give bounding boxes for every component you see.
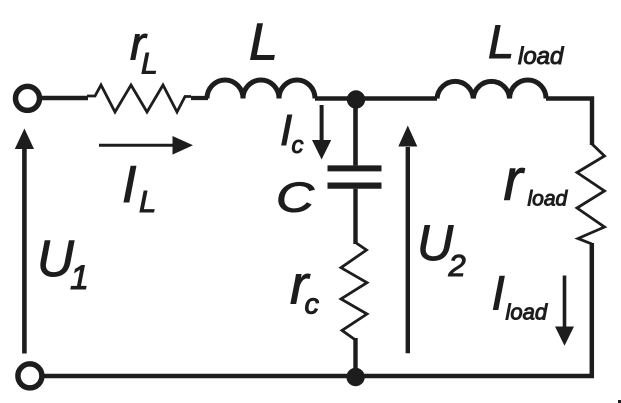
svg-text:2: 2 (448, 248, 466, 283)
svg-text:load: load (506, 300, 548, 325)
svg-text:load: load (528, 188, 569, 211)
svg-text:I: I (122, 156, 136, 214)
wire top-left horizontal (42, 96, 88, 101)
terminal bottom-left (18, 364, 42, 388)
svg-text:load: load (518, 43, 564, 70)
node top junction (347, 90, 365, 108)
wire rL to L (191, 96, 208, 100)
caption period bottom-right (618, 400, 621, 403)
node bottom junction (346, 368, 364, 386)
arrow U2 (406, 147, 410, 353)
terminal top-left (16, 86, 40, 110)
resistor rload (577, 144, 605, 244)
svg-text:L: L (249, 13, 278, 71)
inductor L (207, 80, 315, 98)
arrow U1 (22, 147, 27, 354)
wire rc to bottom node (353, 338, 357, 376)
inductor Lload (437, 80, 546, 98)
svg-text:c: c (305, 288, 320, 320)
capacitor C (328, 165, 382, 171)
svg-text:L: L (488, 15, 514, 68)
svg-text:L: L (141, 48, 158, 81)
resistor rL (87, 85, 191, 112)
svg-text:1: 1 (70, 259, 89, 297)
wire Lload to top-right corner and down (546, 99, 592, 146)
arrow Iload (563, 276, 567, 329)
svg-text:C: C (276, 174, 315, 221)
svg-text:c: c (292, 132, 304, 159)
svg-text:I: I (280, 106, 292, 155)
svg-text:I: I (492, 267, 505, 320)
svg-text:r: r (504, 147, 526, 212)
wire L to node (315, 96, 437, 100)
resistor rc (341, 243, 367, 341)
arrow IL (99, 144, 176, 147)
svg-text:L: L (139, 184, 156, 219)
wire capacitor to rc (353, 189, 357, 244)
wire node to capacitor (353, 99, 358, 165)
arrow Ic (320, 105, 324, 141)
wire rload to bottom-right corner (45, 243, 592, 376)
